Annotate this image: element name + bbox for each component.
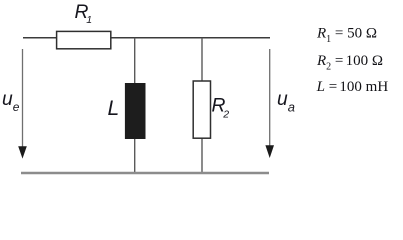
svg-text:L = 100 mH: L = 100 mH xyxy=(316,79,389,95)
svg-text:L: L xyxy=(108,97,120,120)
resistor R1 xyxy=(57,31,111,48)
wire: bottom rail xyxy=(21,172,269,174)
resistor R2 xyxy=(193,81,210,138)
arrow u_a (head) xyxy=(265,145,274,158)
arrow u_e (line) xyxy=(22,49,24,148)
wire: inductor branch xyxy=(134,38,136,173)
wire: top rail xyxy=(23,37,270,39)
arrow u_a (line) xyxy=(269,49,271,148)
inductor L xyxy=(125,83,146,139)
wire: R2 branch xyxy=(201,38,203,173)
arrow u_e (head) xyxy=(18,146,27,158)
